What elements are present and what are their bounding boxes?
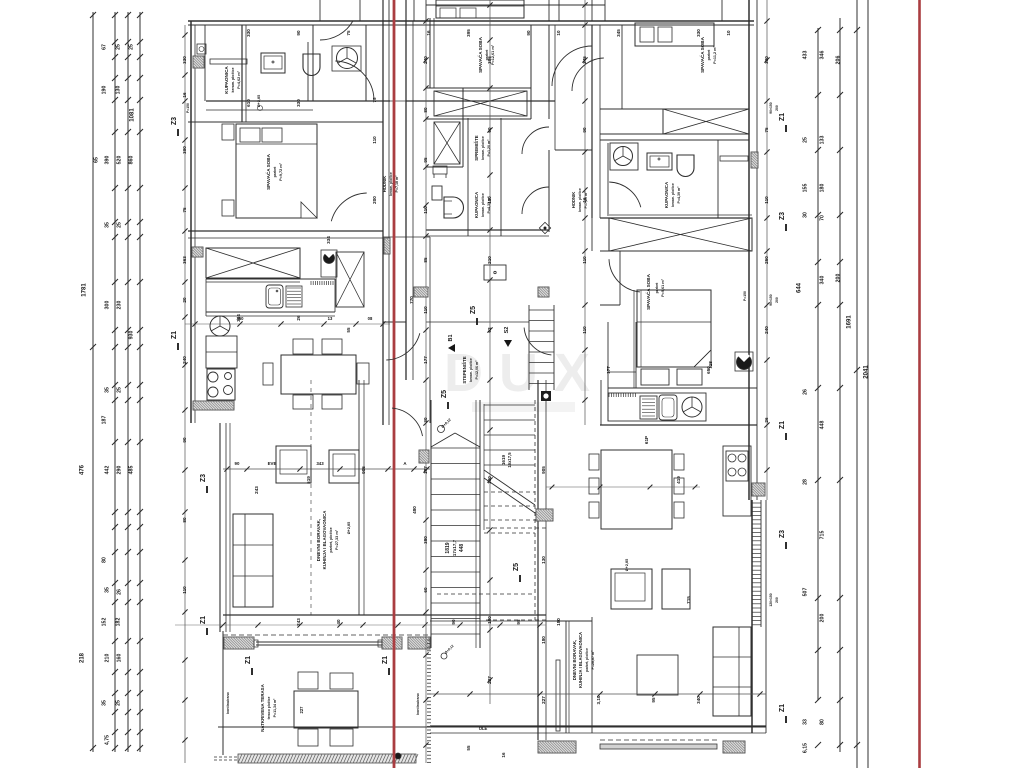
svg-text:55: 55 bbox=[466, 745, 471, 751]
svg-text:380: 380 bbox=[423, 536, 428, 544]
svg-text:644: 644 bbox=[797, 282, 803, 293]
svg-text:40: 40 bbox=[336, 619, 341, 625]
svg-text:60: 60 bbox=[487, 127, 492, 133]
door arcs lower bbox=[386, 259, 640, 659]
red section line right bbox=[918, 0, 921, 768]
dimension ticks right bbox=[815, 27, 860, 748]
svg-text:SPAVAĆA SOBA: SPAVAĆA SOBA bbox=[644, 273, 651, 309]
dimension ticks left bbox=[90, 12, 143, 751]
window wall left living bbox=[220, 423, 230, 632]
svg-text:177: 177 bbox=[423, 466, 428, 474]
svg-text:442: 442 bbox=[105, 466, 111, 475]
terrace right edge hatch bbox=[427, 640, 431, 762]
svg-text:433: 433 bbox=[803, 51, 809, 60]
svg-text:419: 419 bbox=[676, 476, 681, 484]
svg-text:Z1: Z1 bbox=[779, 113, 786, 121]
svg-text:80: 80 bbox=[182, 517, 187, 523]
svg-text:180: 180 bbox=[556, 618, 561, 626]
svg-text:1691: 1691 bbox=[847, 315, 853, 329]
window wall right living ladder bbox=[752, 500, 761, 627]
svg-text:243: 243 bbox=[254, 486, 259, 494]
svg-text:718: 718 bbox=[708, 361, 713, 369]
svg-text:210: 210 bbox=[487, 256, 492, 264]
interior walls middle bbox=[426, 18, 600, 236]
svg-text:kontinuirano: kontinuirano bbox=[226, 691, 230, 714]
room labels right apartment bbox=[644, 36, 717, 309]
svg-text:75: 75 bbox=[764, 127, 769, 133]
svg-text:240: 240 bbox=[423, 56, 428, 64]
window parapet labels bbox=[186, 102, 779, 606]
svg-text:610: 610 bbox=[246, 99, 251, 107]
svg-text:30: 30 bbox=[803, 212, 809, 218]
living dividers left bbox=[311, 380, 364, 615]
wc sink middle bbox=[484, 265, 506, 280]
svg-text:Z3: Z3 bbox=[200, 474, 207, 482]
svg-text:110: 110 bbox=[423, 206, 428, 214]
stair direction arrows bbox=[448, 327, 551, 401]
staircase flight 2 dashed bbox=[437, 400, 546, 620]
bottom wall right part bbox=[430, 726, 766, 753]
svg-text:390: 390 bbox=[182, 146, 187, 154]
svg-text:520: 520 bbox=[117, 156, 123, 165]
bed top right bbox=[635, 23, 714, 46]
svg-text:80: 80 bbox=[102, 557, 108, 563]
svg-text:1819: 1819 bbox=[445, 542, 451, 553]
svg-text:330: 330 bbox=[182, 56, 187, 64]
middle bathroom fixtures bbox=[432, 118, 551, 236]
svg-text:110: 110 bbox=[764, 196, 769, 204]
svg-text:P=11,34 m²: P=11,34 m² bbox=[273, 698, 277, 717]
bedroom right inner wall line bbox=[633, 290, 635, 388]
terrace railing hatch bbox=[214, 753, 418, 763]
bathroom fixtures right bbox=[610, 143, 748, 177]
svg-text:90×150: 90×150 bbox=[769, 102, 773, 114]
svg-text:P=12,06 m²: P=12,06 m² bbox=[475, 360, 479, 380]
svg-text:90×150: 90×150 bbox=[769, 294, 773, 306]
storage closet X middle 2 bbox=[434, 122, 460, 164]
svg-text:507: 507 bbox=[803, 588, 809, 597]
svg-text:130: 130 bbox=[116, 86, 122, 95]
svg-text:90: 90 bbox=[526, 30, 531, 36]
svg-text:parket: parket bbox=[707, 49, 711, 61]
corridor sill line bbox=[390, 21, 406, 101]
svg-text:334: 334 bbox=[326, 236, 331, 244]
svg-text:330: 330 bbox=[246, 29, 251, 37]
svg-text:330: 330 bbox=[696, 29, 701, 37]
svg-text:110: 110 bbox=[582, 256, 587, 264]
svg-text:70: 70 bbox=[820, 215, 826, 221]
interior walls right apartment bbox=[592, 25, 757, 425]
stair flight upper middle bbox=[529, 305, 554, 390]
svg-text:519: 519 bbox=[306, 476, 311, 484]
svg-text:NATKRIVENA TERASA: NATKRIVENA TERASA bbox=[260, 683, 265, 731]
svg-text:330: 330 bbox=[296, 99, 301, 107]
bed left bedroom bbox=[222, 124, 317, 218]
svg-text:130: 130 bbox=[487, 476, 492, 484]
svg-text:155: 155 bbox=[803, 184, 809, 193]
svg-text:715: 715 bbox=[686, 596, 691, 604]
svg-text:35: 35 bbox=[102, 700, 108, 706]
svg-text:330: 330 bbox=[764, 56, 769, 64]
svg-text:30: 30 bbox=[423, 417, 428, 423]
svg-text:95: 95 bbox=[423, 157, 428, 163]
room labels left apartment bbox=[224, 66, 399, 196]
svg-text:90: 90 bbox=[451, 619, 456, 625]
svg-text:480: 480 bbox=[412, 506, 417, 514]
svg-text:S2: S2 bbox=[504, 327, 510, 334]
svg-text:20: 20 bbox=[182, 297, 187, 303]
svg-text:SPAVAĆA SOBA: SPAVAĆA SOBA bbox=[264, 153, 271, 189]
terrace labels bbox=[226, 683, 488, 731]
svg-text:770: 770 bbox=[409, 296, 414, 304]
storage closet X middle bbox=[434, 91, 527, 116]
svg-text:90: 90 bbox=[296, 30, 301, 36]
svg-text:133: 133 bbox=[820, 136, 826, 145]
kitchen counter right bbox=[608, 393, 706, 421]
svg-text:KUHINJA I BLAGOVAONICA: KUHINJA I BLAGOVAONICA bbox=[322, 510, 327, 570]
wall hatch blocks bbox=[192, 56, 758, 521]
svg-text:227: 227 bbox=[487, 676, 492, 684]
walls above top edge bbox=[320, 0, 722, 40]
svg-text:1619: 1619 bbox=[501, 454, 506, 465]
svg-text:60: 60 bbox=[423, 587, 428, 593]
svg-text:keram. pločice: keram. pločice bbox=[469, 358, 473, 382]
svg-text:P=4,62 m²: P=4,62 m² bbox=[237, 70, 241, 89]
svg-text:1781: 1781 bbox=[82, 283, 88, 297]
svg-text:80: 80 bbox=[820, 719, 826, 725]
svg-text:Z1: Z1 bbox=[779, 704, 786, 712]
svg-text:25: 25 bbox=[116, 44, 122, 50]
svg-text:61P: 61P bbox=[644, 436, 649, 444]
svg-text:130: 130 bbox=[541, 556, 546, 564]
svg-text:85: 85 bbox=[423, 257, 428, 263]
inner dimension ticks bbox=[182, 2, 769, 747]
svg-text:200: 200 bbox=[820, 614, 826, 623]
svg-text:90: 90 bbox=[582, 127, 587, 133]
svg-text:EVE: EVE bbox=[268, 461, 277, 466]
svg-text:Ø+2,85: Ø+2,85 bbox=[625, 559, 629, 572]
svg-text:10: 10 bbox=[556, 30, 561, 36]
svg-text:Z5: Z5 bbox=[470, 306, 477, 314]
small dimension numbers plan bbox=[182, 29, 769, 758]
svg-text:95: 95 bbox=[651, 697, 656, 703]
svg-text:25: 25 bbox=[803, 137, 809, 143]
svg-text:218: 218 bbox=[80, 652, 86, 663]
bathroom fixtures left top bbox=[197, 42, 361, 101]
svg-text:Z1: Z1 bbox=[200, 616, 207, 624]
stove left bbox=[193, 369, 235, 410]
red section line left bbox=[393, 0, 396, 768]
svg-text:35: 35 bbox=[105, 587, 111, 593]
svg-text:HODNIK: HODNIK bbox=[571, 192, 576, 209]
svg-text:16: 16 bbox=[182, 92, 187, 98]
svg-text:Z1: Z1 bbox=[245, 656, 252, 664]
svg-text:08: 08 bbox=[368, 316, 373, 321]
svg-text:75: 75 bbox=[182, 207, 187, 213]
svg-text:P=150: P=150 bbox=[743, 291, 747, 301]
svg-text:75: 75 bbox=[346, 30, 351, 36]
svg-text:90: 90 bbox=[182, 437, 187, 443]
terrace doorway left bbox=[175, 615, 546, 649]
svg-text:16x17,5: 16x17,5 bbox=[507, 452, 512, 468]
svg-text:Z5: Z5 bbox=[513, 563, 520, 571]
svg-text:110: 110 bbox=[423, 306, 428, 314]
svg-text:2041: 2041 bbox=[864, 365, 870, 379]
svg-text:P=7,18 m²: P=7,18 m² bbox=[395, 175, 399, 193]
svg-text:keram. pločice: keram. pločice bbox=[389, 172, 393, 196]
dimension row bottom right bbox=[430, 485, 766, 697]
svg-text:340: 340 bbox=[820, 276, 826, 285]
corridor cross walls bbox=[383, 237, 529, 380]
svg-text:95: 95 bbox=[516, 619, 521, 625]
svg-text:67: 67 bbox=[102, 44, 108, 50]
svg-text:KUHINJA I BLAGOVAONICA: KUHINJA I BLAGOVAONICA bbox=[578, 632, 583, 688]
svg-text:177: 177 bbox=[423, 356, 428, 364]
svg-text:26: 26 bbox=[764, 417, 769, 423]
svg-text:Z5: Z5 bbox=[441, 390, 448, 398]
svg-text:250: 250 bbox=[764, 256, 769, 264]
svg-text:25: 25 bbox=[116, 700, 122, 706]
svg-text:160: 160 bbox=[117, 654, 123, 663]
svg-text:200: 200 bbox=[836, 274, 842, 283]
svg-text:keram. pločice: keram. pločice bbox=[481, 136, 485, 160]
svg-text:P=9,61 m²: P=9,61 m² bbox=[661, 278, 665, 297]
svg-text:340: 340 bbox=[696, 696, 701, 704]
svg-text:keram. pločice: keram. pločice bbox=[481, 193, 485, 217]
room labels middle bbox=[462, 36, 588, 383]
svg-text:Z3: Z3 bbox=[171, 117, 178, 125]
svg-text:P=11,2 m²: P=11,2 m² bbox=[713, 45, 717, 63]
svg-text:230: 230 bbox=[117, 301, 123, 310]
svg-text:STEPENIŠTE: STEPENIŠTE bbox=[462, 356, 467, 383]
svg-text:KUPAONICA: KUPAONICA bbox=[664, 181, 669, 208]
svg-text:10: 10 bbox=[726, 30, 731, 36]
svg-text:55: 55 bbox=[346, 327, 351, 333]
svg-text:Z3: Z3 bbox=[779, 530, 786, 538]
terrace left with table bbox=[218, 631, 766, 755]
kitchen counter left with sink bbox=[185, 279, 390, 327]
svg-text:Z3: Z3 bbox=[779, 212, 786, 220]
svg-text:905: 905 bbox=[361, 466, 366, 474]
svg-text:476: 476 bbox=[80, 464, 86, 475]
svg-text:290: 290 bbox=[117, 466, 123, 475]
svg-text:P=150: P=150 bbox=[186, 103, 190, 113]
svg-text:345: 345 bbox=[616, 29, 621, 37]
svg-text:152: 152 bbox=[102, 618, 108, 627]
dining table left bbox=[263, 339, 369, 409]
svg-text:187: 187 bbox=[102, 416, 108, 425]
svg-text:180: 180 bbox=[820, 184, 826, 193]
svg-text:35: 35 bbox=[105, 387, 111, 393]
svg-text:33: 33 bbox=[803, 719, 809, 725]
svg-text:110: 110 bbox=[182, 586, 187, 594]
svg-text:26: 26 bbox=[296, 315, 301, 321]
svg-text:26: 26 bbox=[803, 389, 809, 395]
svg-text:25: 25 bbox=[129, 44, 135, 50]
door arcs upper bbox=[331, 46, 641, 221]
svg-text:206: 206 bbox=[836, 56, 842, 65]
svg-text:200: 200 bbox=[775, 297, 779, 303]
svg-text:395: 395 bbox=[487, 56, 492, 64]
svg-text:parket: parket bbox=[273, 166, 277, 178]
staircase flight 1 bbox=[431, 400, 480, 648]
svg-text:240: 240 bbox=[764, 326, 769, 334]
svg-text:28: 28 bbox=[803, 479, 809, 485]
bed bottom right bbox=[608, 290, 757, 421]
svg-text:parket, pločice: parket, pločice bbox=[329, 527, 333, 552]
wardrobe X left apartment bbox=[336, 252, 364, 307]
svg-text:110: 110 bbox=[582, 326, 587, 334]
svg-text:P=28,87 m²: P=28,87 m² bbox=[591, 650, 595, 670]
svg-text:P=27,33 m²: P=27,33 m² bbox=[335, 529, 339, 550]
svg-text:75: 75 bbox=[372, 97, 377, 103]
svg-text:390: 390 bbox=[105, 156, 111, 165]
corridor walls lower bbox=[430, 380, 592, 740]
dimension row living left bbox=[223, 461, 430, 472]
svg-text:P=4,39 m²: P=4,39 m² bbox=[677, 186, 681, 204]
svg-text:4,75: 4,75 bbox=[105, 735, 111, 745]
svg-text:teraco pločice: teraco pločice bbox=[267, 696, 271, 719]
svg-text:182: 182 bbox=[116, 618, 122, 627]
svg-text:200: 200 bbox=[775, 105, 779, 111]
svg-text:240: 240 bbox=[182, 356, 187, 364]
svg-text:190: 190 bbox=[102, 86, 108, 95]
svg-text:SPAVAĆA SOBA: SPAVAĆA SOBA bbox=[698, 36, 705, 72]
svg-text:243: 243 bbox=[296, 618, 301, 626]
svg-text:180: 180 bbox=[487, 616, 492, 624]
svg-text:keram. pločice: keram. pločice bbox=[231, 68, 235, 93]
svg-text:Z1: Z1 bbox=[171, 331, 178, 339]
svg-text:363: 363 bbox=[182, 256, 187, 264]
svg-text:Z1: Z1 bbox=[779, 421, 786, 429]
dimension numbers left bbox=[80, 44, 136, 745]
svg-text:parket: parket bbox=[655, 282, 659, 294]
svg-text:OLE: OLE bbox=[479, 726, 488, 731]
svg-text:DNEVNI BORAVAK,: DNEVNI BORAVAK, bbox=[572, 640, 577, 681]
svg-text:1081: 1081 bbox=[130, 108, 136, 122]
svg-text:200: 200 bbox=[372, 196, 377, 204]
svg-text:KUPAONICA: KUPAONICA bbox=[474, 191, 479, 218]
svg-text:120×150: 120×150 bbox=[769, 593, 773, 606]
svg-text:35: 35 bbox=[105, 222, 111, 228]
north marker left bbox=[321, 250, 337, 277]
svg-text:SPREMIŠTE: SPREMIŠTE bbox=[474, 135, 479, 160]
svg-text:485: 485 bbox=[129, 466, 135, 475]
closet X right 1 bbox=[663, 109, 749, 134]
svg-text:300: 300 bbox=[105, 301, 111, 310]
svg-text:930: 930 bbox=[129, 331, 135, 340]
svg-text:110: 110 bbox=[487, 196, 492, 204]
svg-text:parket, pločice: parket, pločice bbox=[585, 648, 589, 672]
DUX watermark bbox=[444, 343, 606, 412]
svg-text:65: 65 bbox=[94, 157, 100, 163]
svg-text:kontinuirano: kontinuirano bbox=[416, 692, 420, 715]
dimension chain lines left bbox=[93, 12, 140, 752]
svg-text:715: 715 bbox=[820, 531, 826, 540]
svg-text:P=1,20 m²: P=1,20 m² bbox=[487, 139, 491, 157]
svg-text:227: 227 bbox=[541, 696, 546, 704]
svg-text:448: 448 bbox=[459, 544, 465, 553]
svg-text:DNEVNI BORAVAK,: DNEVNI BORAVAK, bbox=[316, 519, 321, 561]
svg-text:Z1: Z1 bbox=[382, 656, 389, 664]
svg-text:177: 177 bbox=[606, 366, 611, 374]
section markers Z bbox=[171, 113, 786, 723]
closet X right 2 bbox=[609, 215, 752, 251]
svg-text:16: 16 bbox=[426, 30, 431, 36]
dimension chain lines right bbox=[818, 0, 868, 768]
dimension numbers right bbox=[797, 51, 870, 753]
svg-text:110: 110 bbox=[372, 136, 377, 144]
svg-text:SPAVAĆA SOBA: SPAVAĆA SOBA bbox=[476, 36, 483, 72]
living room labels bbox=[316, 510, 629, 688]
exterior walls bbox=[188, 0, 766, 733]
svg-text:P=9,72 m²: P=9,72 m² bbox=[279, 162, 283, 181]
svg-text:keram. pločice: keram. pločice bbox=[671, 183, 675, 207]
svg-text:200: 200 bbox=[775, 597, 779, 603]
svg-text:26: 26 bbox=[117, 589, 123, 595]
svg-text:860: 860 bbox=[129, 156, 135, 165]
svg-text:6,15: 6,15 bbox=[803, 743, 809, 753]
sofa left bbox=[233, 514, 273, 607]
bed top middle room bbox=[436, 0, 524, 18]
svg-text:905: 905 bbox=[541, 466, 546, 474]
svg-text:346: 346 bbox=[820, 51, 826, 60]
closet with X left bbox=[206, 248, 300, 282]
svg-text:16: 16 bbox=[501, 752, 506, 758]
svg-text:Ø+2,85: Ø+2,85 bbox=[347, 522, 351, 535]
svg-text:16: 16 bbox=[582, 197, 587, 203]
svg-text:25: 25 bbox=[117, 222, 123, 228]
svg-text:80: 80 bbox=[423, 107, 428, 113]
svg-text:395: 395 bbox=[466, 29, 471, 37]
svg-text:180: 180 bbox=[541, 636, 546, 644]
inner dimension lines bbox=[185, 0, 767, 763]
svg-text:62: 62 bbox=[487, 327, 492, 333]
washer and cabinet left bbox=[206, 316, 237, 368]
armchairs left bbox=[276, 446, 359, 483]
svg-text:90: 90 bbox=[235, 461, 240, 466]
svg-text:345: 345 bbox=[582, 56, 587, 64]
svg-text:364: 364 bbox=[236, 314, 241, 322]
svg-text:HODNIK: HODNIK bbox=[382, 176, 387, 193]
svg-text:210: 210 bbox=[105, 654, 111, 663]
cooktop right bbox=[723, 446, 765, 516]
svg-text:KUPAONICA: KUPAONICA bbox=[224, 66, 229, 94]
svg-text:13: 13 bbox=[328, 316, 333, 321]
interior walls left apartment bbox=[188, 21, 555, 425]
svg-text:227: 227 bbox=[299, 706, 304, 714]
svg-text:17x17,7: 17x17,7 bbox=[452, 539, 457, 556]
svg-text:448: 448 bbox=[820, 421, 826, 430]
svg-text:25: 25 bbox=[117, 387, 123, 393]
svg-text:343: 343 bbox=[316, 461, 324, 466]
dining table right bbox=[589, 450, 684, 529]
svg-text:B1: B1 bbox=[448, 334, 454, 341]
living furniture right bbox=[611, 569, 751, 716]
svg-text:3,10: 3,10 bbox=[596, 695, 601, 704]
